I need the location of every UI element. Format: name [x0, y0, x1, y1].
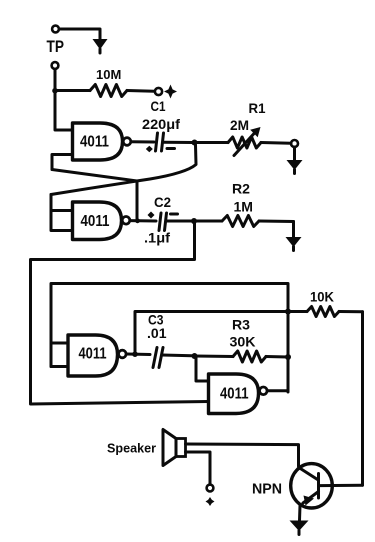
svg-text:.1μf: .1μf [144, 230, 170, 246]
capacitor C1 (220uf) [156, 133, 158, 151]
resistor 10K [307, 307, 339, 317]
resistor R1 (2M variable) [228, 137, 261, 148]
wire C2 to node [166, 220, 192, 223]
wire U1A lower input bracket [52, 155, 73, 170]
wire R2 right down [292, 222, 295, 238]
wire speaker to battery terminal [186, 452, 211, 485]
svg-text:R3: R3 [232, 317, 250, 333]
terminal (R1 right) [291, 140, 298, 147]
node (U2A output junction) [132, 351, 138, 357]
speaker [163, 430, 176, 466]
NAND gate U2A (4011) [68, 335, 118, 376]
ground (R1) [287, 160, 303, 170]
svg-text:R2: R2 [232, 181, 250, 197]
ground (emitter) [290, 521, 309, 532]
wire U2A output to C3 [126, 353, 150, 357]
wire R1 terminal down [293, 147, 296, 160]
svg-text:C1: C1 [151, 99, 166, 114]
node (C2/R2 junction) [191, 218, 197, 224]
terminal TP [52, 26, 59, 33]
svg-text:4011: 4011 [81, 213, 110, 230]
svg-text:Speaker: Speaker [107, 441, 156, 456]
terminal (10M right, C+ supply) [155, 88, 162, 95]
node (10M tap) [52, 88, 58, 94]
plus mark (supply +) [164, 85, 177, 99]
svg-text:.01: .01 [147, 325, 167, 341]
svg-text:10M: 10M [96, 67, 121, 82]
resistor 10M [55, 89, 90, 92]
node (C3/R3 junction) [192, 353, 198, 359]
svg-text:4011: 4011 [80, 134, 109, 151]
svg-text:1M: 1M [234, 199, 254, 215]
NAND gate U2B (4011) [209, 374, 259, 414]
svg-text:10K: 10K [310, 289, 334, 305]
svg-text:220μf: 220μf [142, 116, 180, 132]
capacitor C2 (.1uf) [159, 213, 161, 231]
wire cross-couple from C1 node to U1B input [51, 145, 196, 195]
capacitor C3 (.01) [153, 348, 157, 368]
svg-text:C2: C2 [154, 194, 171, 210]
wire U2A input stubs [51, 343, 68, 367]
svg-text:4011: 4011 [220, 386, 249, 403]
node (10K tap on feedback) [285, 309, 291, 315]
wire U2B output to feedback [267, 389, 288, 392]
wire C3 node down to U2B input [196, 356, 209, 381]
plus mark (battery) [206, 497, 215, 506]
wire U1B input bracket [51, 195, 73, 231]
svg-text:2M: 2M [230, 117, 249, 133]
wire emitter to ground [298, 506, 302, 521]
svg-text:TP: TP [47, 38, 65, 56]
transistor Q1 NPN [291, 464, 333, 508]
svg-text:NPN: NPN [252, 481, 282, 498]
node (C1/R1 junction) [192, 140, 198, 146]
wire 10K down to transistor base [361, 312, 364, 485]
wire TP to ground [59, 29, 100, 39]
wire U1A output to C1 [131, 140, 154, 143]
wire C1 to node [163, 141, 193, 144]
terminal (battery +) [207, 485, 214, 492]
wire U2A output up and over to 10K [135, 312, 307, 355]
wire node to R1 [195, 141, 229, 144]
svg-text:R1: R1 [249, 100, 266, 116]
wire terminal down to gate U1A input [55, 69, 73, 130]
svg-text:30K: 30K [230, 334, 256, 350]
wire node to R2 [194, 220, 222, 223]
resistor R2 (1M) [222, 216, 259, 227]
wire cross-couple from U1A input to U1B output [52, 170, 137, 220]
NAND gate U1B (4011) [73, 202, 122, 240]
NAND gate U1A (4011) [73, 123, 123, 160]
ground (top) [93, 39, 108, 50]
wire U1B output to C2 [130, 219, 156, 222]
ground (R2) [286, 237, 302, 247]
resistor R3 (30K) [233, 351, 266, 362]
terminal (gate input) [52, 62, 59, 69]
wire U2B output feedback to U2A inputs (inner box) [51, 284, 288, 393]
wire speaker to transistor collector [186, 444, 299, 466]
wire C2 node to lower oscillator (outer feedback) [31, 221, 209, 404]
wire node to R3 [195, 355, 234, 359]
node (R3 right junction) [285, 354, 291, 360]
wire C3 to node [162, 354, 192, 358]
svg-text:4011: 4011 [79, 346, 107, 363]
